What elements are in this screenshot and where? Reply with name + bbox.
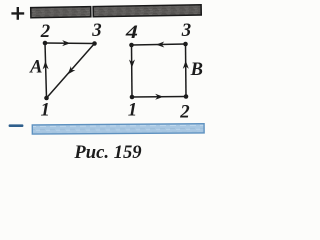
circuit B: node 3 dot — [183, 42, 188, 47]
circuit A: wire node1-node2 (left vertical, arrow up) — [42, 43, 48, 98]
circuit B: label B — [190, 60, 203, 80]
circuit B: label 2 — [179, 102, 189, 123]
circuit A: label A — [29, 58, 42, 78]
svg-text:1: 1 — [128, 100, 137, 121]
circuit A: label 2 — [40, 21, 50, 42]
svg-text:A: A — [29, 58, 42, 78]
circuit A: node 2 dot — [43, 41, 48, 46]
circuit B: wire node2-node3 (right vertical, arrow up) — [183, 44, 189, 97]
svg-text:2: 2 — [40, 21, 50, 42]
negative bus bar (blue) — [32, 124, 204, 134]
circuit A: wire node2-node3 (top horizontal, arrow right) — [45, 40, 95, 46]
circuit B: node 4 dot — [129, 43, 134, 48]
circuit B: label 1 — [128, 100, 137, 121]
circuit A: node 3 dot — [92, 41, 97, 46]
circuit B: node 2 dot — [184, 94, 189, 99]
svg-text:2: 2 — [179, 102, 189, 123]
svg-text:B: B — [190, 60, 203, 80]
circuit A: wire node3-node1 (diagonal, arrow toward 1) — [47, 44, 95, 99]
svg-text:Рис. 159: Рис. 159 — [73, 142, 141, 163]
svg-text:1: 1 — [41, 100, 50, 121]
circuit B: wire node3-node4 (top horizontal, arrow left) — [132, 41, 186, 47]
svg-text:3: 3 — [91, 20, 101, 41]
circuit B: wire node4-node1 (left vertical, arrow down) — [129, 45, 135, 97]
circuit B: label 3 — [181, 20, 191, 41]
svg-text:4: 4 — [125, 21, 138, 42]
svg-text:3: 3 — [181, 20, 191, 41]
circuit A: label 1 — [41, 100, 50, 121]
plus terminal sign — [11, 7, 24, 20]
minus terminal sign — [9, 124, 24, 127]
caption: Puc. 159 — [73, 142, 141, 163]
circuit B: label 4 — [125, 21, 138, 42]
circuit B: node 1 dot — [130, 95, 135, 100]
positive bus bar (two segments with gap) — [31, 5, 202, 18]
circuit A: node 1 dot — [44, 96, 49, 101]
circuit A: label 3 — [91, 20, 101, 41]
circuit B: wire node1-node2 (bottom horizontal, arrow right) — [132, 94, 186, 100]
